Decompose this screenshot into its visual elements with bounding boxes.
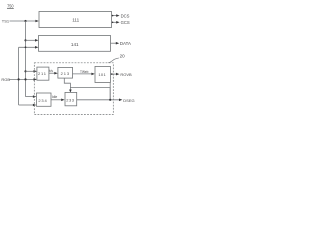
box 211: [37, 67, 49, 80]
arrowhead into box 213: [54, 72, 57, 75]
svg-text:DATA: DATA: [120, 41, 131, 46]
wire DSEG output: [77, 99, 121, 101]
svg-text:TS1: TS1: [2, 19, 10, 24]
arrowhead into box 141 input 2: [35, 46, 38, 49]
arrowhead into box 211 input 1: [34, 70, 37, 73]
junction dot C (25.5,47.3): [25, 46, 27, 48]
wire box 213 to box 101: [73, 73, 93, 75]
wire ROVB output: [110, 73, 117, 75]
wire vertical V1 x=18.6: [18, 47, 20, 105]
pin dot GCS: [112, 22, 114, 24]
arrowhead DCS: [116, 14, 119, 17]
box 233: [65, 92, 77, 105]
junction dot F (25.5,71.3): [24, 70, 26, 72]
svg-text:DCS: DCS: [121, 14, 130, 19]
arrowhead DSEG: [119, 99, 122, 102]
arrowhead RGB into box 211: [34, 78, 37, 81]
wire vertical V2 x=25.5: [25, 21, 27, 97]
wire TS1 to box 111: [10, 20, 37, 22]
svg-text:20: 20: [120, 53, 126, 58]
svg-text:RGB: RGB: [1, 77, 10, 82]
svg-text:233: 233: [66, 98, 74, 103]
svg-text:211: 211: [38, 71, 47, 76]
box 231: [37, 93, 52, 106]
svg-text:TWeb: TWeb: [80, 70, 89, 74]
box U1 controller 111: [39, 12, 112, 28]
arrowhead into box 231 input 1: [33, 95, 36, 98]
junction dot G (110.2,99.8): [109, 99, 111, 101]
box 101: [95, 66, 110, 82]
svg-text:t/s: t/s: [49, 69, 53, 73]
arrowhead into box 141 input 1: [35, 39, 38, 42]
wire box 101 bottom to DSEG line: [109, 83, 111, 100]
box 213: [58, 67, 73, 78]
pin dot DCS: [112, 15, 114, 17]
wire RGB to box 211: [9, 78, 35, 80]
svg-text:213: 213: [61, 71, 70, 76]
arrowhead into box 111: [35, 20, 38, 23]
arrowhead into box 101: [91, 73, 94, 76]
arrowhead into box 233: [61, 99, 64, 102]
wire box 213 bottom elbow: [64, 78, 70, 91]
svg-text:DSEG: DSEG: [123, 98, 134, 103]
box U2 data processor 141: [39, 36, 111, 52]
svg-text:111: 111: [72, 18, 79, 23]
svg-text:234: 234: [38, 98, 47, 103]
svg-text:750: 750: [7, 3, 14, 8]
dashed group box 20: [34, 63, 113, 115]
svg-text:ROVB: ROVB: [120, 72, 132, 77]
wire box 211 to box 213: [49, 72, 56, 74]
junction dot E (25.5,79.4): [24, 78, 26, 80]
pin dot ROVB: [111, 73, 113, 75]
wire branch to box 211 input 1: [26, 70, 35, 72]
arrowhead into box 233 top: [69, 90, 72, 93]
wire DCS output: [112, 15, 118, 17]
wire V1 corner into box 231 input 2: [19, 104, 35, 106]
junction dot B (25.5,40.3): [24, 39, 26, 41]
wire branch right to DSEG vertical: [70, 88, 110, 100]
arrowhead ROVB: [116, 73, 119, 76]
wire branch V1 to box 141 input 2: [19, 46, 37, 48]
wire GCS output: [112, 21, 118, 23]
svg-text:Idle: Idle: [52, 95, 58, 99]
svg-text:GCS: GCS: [121, 20, 130, 25]
wire box 231 to box 233: [51, 99, 63, 101]
arrowhead DATA: [116, 42, 119, 45]
junction dot D (18.6,79.4): [18, 78, 20, 80]
arrowhead into box 231 input 2: [33, 104, 36, 107]
wire DATA output: [111, 42, 118, 44]
svg-text:141: 141: [71, 42, 79, 47]
wire branch to box 141 input 1: [26, 39, 37, 41]
junction dot A (25.5,21): [24, 20, 26, 22]
svg-text:101: 101: [98, 72, 106, 77]
reference 20 leader squiggle: [108, 58, 119, 63]
arrowhead GCS: [116, 21, 119, 24]
wire V2 corner into box 231 input 1: [26, 96, 35, 98]
figure number 750: [7, 3, 14, 8]
